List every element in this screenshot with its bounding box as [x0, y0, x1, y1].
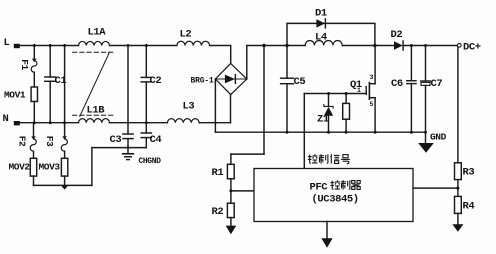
- fuse F3: [61, 123, 67, 159]
- resistor R3: [455, 163, 462, 197]
- svg-text:L1B: L1B: [87, 105, 106, 117]
- wire sense tap down to R1: [230, 154, 232, 164]
- svg-text:L2: L2: [180, 29, 192, 41]
- capacitor C3 (line from L rail to chassis): [123, 46, 133, 148]
- choke core dash above L1B: [73, 114, 113, 116]
- varistor MOV3: [61, 158, 67, 185]
- terminal N: [14, 121, 20, 125]
- wire bridge right vertex up to positive rail: [246, 46, 248, 80]
- inductor L4: [305, 40, 342, 45]
- capacitor C4: [141, 123, 151, 148]
- svg-text:(UC3845): (UC3845): [312, 194, 359, 206]
- wire negative rail: [215, 131, 425, 133]
- svg-text:5: 5: [370, 101, 374, 108]
- svg-text:C2: C2: [150, 75, 162, 87]
- diode D2: [394, 41, 403, 50]
- wire L line segment 1: [20, 45, 79, 47]
- svg-text:L: L: [4, 37, 10, 49]
- inductor L1B: [79, 119, 110, 123]
- svg-text:C6: C6: [391, 78, 403, 90]
- wire gate line: [304, 93, 366, 95]
- svg-text:L3: L3: [183, 101, 195, 113]
- wire positive rail segment 3: [403, 45, 457, 47]
- wire protective earth rail: [34, 184, 92, 186]
- svg-text:GND: GND: [430, 132, 447, 143]
- wire DC+ down to R3: [457, 47, 459, 163]
- capacitor C2: [141, 46, 151, 123]
- svg-text:3: 3: [370, 74, 374, 81]
- svg-text:DC+: DC+: [463, 42, 481, 54]
- zener Z1: [324, 94, 333, 133]
- svg-text:R1: R1: [212, 167, 224, 179]
- label 控制器 controller: [330, 180, 360, 189]
- capacitor C1: [45, 46, 56, 123]
- svg-text:CHGND: CHGND: [139, 157, 162, 166]
- svg-text:R3: R3: [463, 167, 475, 179]
- wire N line segment 1: [20, 122, 79, 124]
- resistor R4: [455, 196, 462, 224]
- svg-text:MOV1: MOV1: [4, 90, 26, 101]
- choke core dash under L1A: [73, 51, 113, 53]
- label 控制信号 control signal: [308, 154, 350, 163]
- svg-text:MOV3: MOV3: [39, 162, 61, 173]
- svg-text:Z1: Z1: [317, 114, 329, 126]
- wire sense tap from positive rail: [263, 46, 265, 155]
- ground GND arrow: [418, 132, 434, 153]
- bridge internal line: [215, 78, 246, 80]
- inductor L3: [167, 119, 199, 123]
- wire feedback from R3 R4 divider: [413, 187, 458, 189]
- ground arrow under controller: [321, 222, 332, 248]
- capacitor C7 electrolytic: [421, 46, 431, 133]
- transistor Q1 MOSFET: [366, 46, 375, 133]
- inductor L1A: [79, 41, 110, 45]
- fuse F1: [31, 46, 37, 88]
- svg-text:N: N: [3, 113, 9, 125]
- inductor L2: [177, 41, 210, 45]
- terminal L: [14, 44, 20, 48]
- wire bridge left vertex down to negative rail: [214, 79, 216, 132]
- wire divider tap to controller: [231, 190, 254, 192]
- svg-text:R4: R4: [463, 201, 475, 213]
- wire positive rail segment 1: [247, 45, 305, 47]
- wire positive rail segment 2: [342, 45, 394, 47]
- svg-text:MOV2: MOV2: [9, 162, 31, 173]
- svg-text:L1A: L1A: [88, 27, 107, 39]
- svg-text:D1: D1: [315, 8, 327, 20]
- chassis ground symbol CHGND: [123, 148, 134, 160]
- resistor R1: [227, 164, 234, 203]
- wire chassis rail step down: [91, 148, 93, 186]
- wire vertical link left of choke: [64, 46, 66, 123]
- resistor gate R: [343, 94, 350, 133]
- bridge internal diode: [225, 75, 236, 84]
- protective earth arrow: [61, 186, 68, 190]
- capacitor C6: [407, 46, 416, 133]
- wire chassis rail: [92, 147, 146, 149]
- capacitor C5: [281, 46, 294, 133]
- svg-text:D2: D2: [391, 29, 403, 41]
- svg-text:BRG-1: BRG-1: [191, 77, 214, 86]
- fuse F2: [30, 123, 36, 159]
- wire L line segment 2: [110, 45, 177, 47]
- svg-text:PFC: PFC: [310, 182, 329, 194]
- wire sense tap jog: [231, 153, 264, 155]
- diode D1 bypass branch: [287, 19, 375, 46]
- svg-text:F1: F1: [19, 59, 30, 70]
- wire gate drive from controller: [303, 94, 305, 169]
- terminal DC+: [457, 43, 461, 47]
- bridge rectifier BRG-1 diamond: [215, 63, 246, 94]
- svg-text:R2: R2: [212, 206, 224, 218]
- svg-text:L4: L4: [315, 32, 327, 44]
- varistor MOV1: [31, 87, 37, 123]
- svg-text:F3: F3: [44, 136, 55, 147]
- svg-text:F2: F2: [17, 136, 28, 147]
- wire N line segment 3 to bridge bottom lead: [199, 122, 230, 124]
- wire N line segment 2: [110, 122, 168, 124]
- ground arrow under R2: [226, 226, 237, 235]
- svg-text:C1: C1: [55, 75, 67, 87]
- wire bridge bottom vertex to N line: [230, 95, 232, 123]
- wire L line segment 3 into bridge top: [210, 46, 231, 64]
- choke core diagonal: [80, 52, 110, 116]
- svg-text:C5: C5: [294, 76, 306, 88]
- resistor R2: [227, 203, 234, 225]
- svg-text:C4: C4: [150, 134, 162, 146]
- svg-text:C3: C3: [110, 134, 122, 146]
- ground arrow under R4: [452, 224, 463, 232]
- svg-text:C7: C7: [431, 78, 443, 90]
- varistor MOV2: [30, 158, 36, 185]
- controller box UC3845: [254, 169, 413, 222]
- svg-text:1: 1: [357, 87, 361, 94]
